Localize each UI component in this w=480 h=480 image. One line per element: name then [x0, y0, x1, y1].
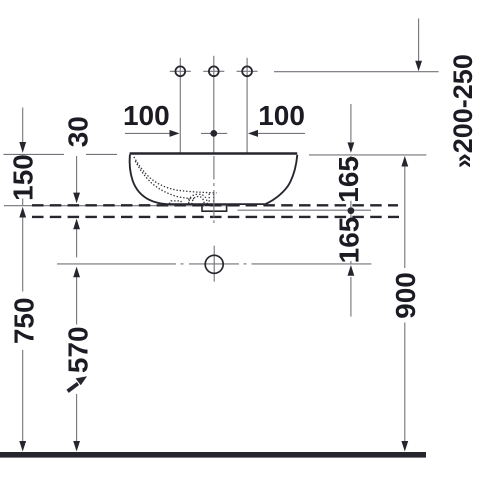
- svg-text:165: 165: [334, 217, 365, 264]
- svg-text:165: 165: [333, 156, 364, 203]
- svg-text:150: 150: [8, 154, 39, 201]
- svg-text:30: 30: [63, 116, 94, 147]
- svg-text:100: 100: [123, 100, 170, 131]
- svg-text:900: 900: [390, 272, 421, 319]
- svg-text:»200-250: »200-250: [448, 54, 478, 168]
- svg-text:750: 750: [9, 297, 40, 344]
- svg-text:570: 570: [63, 326, 94, 373]
- svg-text:100: 100: [258, 100, 305, 131]
